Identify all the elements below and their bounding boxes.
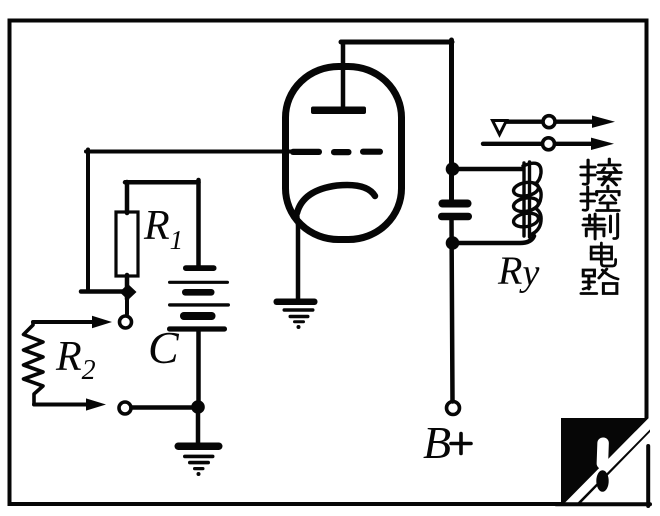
arrowhead R2 bottom — [86, 398, 106, 410]
contact circle 2 — [543, 138, 555, 150]
svg-text:B: B — [423, 417, 451, 468]
border frame bottom segment over logo — [556, 502, 650, 506]
capacitor C2 plate 2 — [438, 213, 472, 221]
wire cathode lead — [297, 211, 298, 299]
triangle contact 1 — [493, 121, 507, 135]
wire right rail mid — [452, 218, 453, 402]
wire top from plate to right rail — [341, 40, 452, 45]
wire R2 bottom arrow line — [34, 403, 87, 407]
border frame right segment over logo — [646, 446, 650, 506]
relay coil Ry — [512, 162, 541, 237]
switch contact line 2 — [483, 142, 593, 146]
node C junction dot (right rail top) — [446, 162, 460, 176]
switch contact line 1 — [495, 119, 594, 123]
svg-text:C: C — [148, 322, 180, 373]
wire R2 top arrow line — [33, 320, 93, 324]
wire relay bottom — [452, 236, 534, 243]
wire relay top — [452, 167, 523, 172]
text 路 (hanzi stroke drawing) — [581, 269, 618, 294]
cathode of V1 (arc) — [297, 185, 375, 213]
logo white corner triangle — [579, 432, 650, 505]
wire R1 to C top — [125, 180, 199, 185]
text 控 (hanzi stroke drawing) — [581, 186, 619, 211]
logo white diagonal stripe — [566, 419, 654, 508]
svg-text:R1: R1 — [143, 203, 183, 255]
svg-text:R2: R2 — [55, 334, 96, 386]
logo black teardrop — [596, 470, 608, 492]
ground bottom — [175, 443, 223, 477]
capacitor C2 plate 1 — [439, 200, 472, 208]
wire down to capacitor C — [196, 180, 201, 267]
wire grid lead to left — [86, 150, 294, 154]
arrowhead R2 top — [92, 316, 112, 328]
wire R1 top lead — [125, 182, 130, 213]
wire to junction A — [81, 289, 124, 294]
tube V1 envelope — [286, 67, 402, 240]
grid of V1 (three dashes) — [290, 149, 383, 156]
wire R1 bottom lead — [125, 275, 130, 299]
svg-text:Ry: Ry — [497, 248, 539, 294]
capacitor C (stack plates) — [167, 265, 230, 331]
text 制 (hanzi stroke drawing) — [583, 214, 618, 239]
text 接 (hanzi stroke drawing) — [581, 159, 621, 185]
resistor R1 — [116, 212, 138, 276]
wire left vertical from grid — [86, 150, 90, 292]
wire node B to ground — [196, 407, 201, 445]
terminal circle upper (wiper contact) — [120, 316, 132, 328]
resistor R2 zigzag with bracket — [24, 322, 44, 405]
plate (anode) of V1 — [311, 107, 366, 115]
wire right rail upper — [449, 40, 454, 200]
terminal circle lower — [119, 402, 131, 414]
node D junction dot (right rail bottom) — [446, 236, 460, 250]
B+ terminal — [447, 402, 460, 415]
label plus sign — [451, 434, 471, 454]
logo black square — [561, 418, 650, 505]
node A junction dot — [120, 284, 137, 300]
wire plate lead — [341, 42, 346, 108]
wire C bottom lead — [196, 330, 201, 404]
ground cathode — [274, 299, 318, 330]
arrowhead contact 2 — [591, 138, 614, 150]
contact circle 1 — [543, 116, 555, 128]
wire lower terminal to node B — [132, 405, 197, 410]
arrowhead contact 1 — [592, 116, 615, 128]
wire junction A to terminal — [125, 297, 129, 314]
node B junction dot — [191, 400, 205, 414]
text 电 (hanzi stroke drawing) — [591, 243, 615, 266]
logo white bar — [596, 437, 609, 469]
